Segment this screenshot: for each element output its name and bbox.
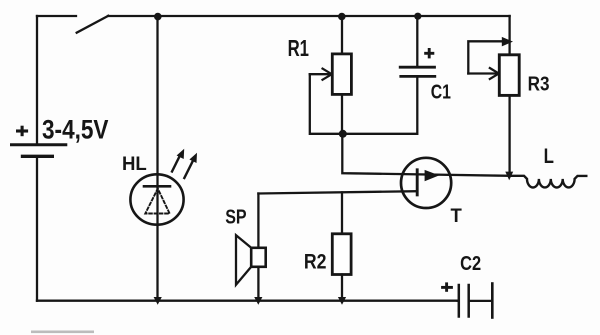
LED HL circle	[130, 174, 183, 224]
switch S1 blade	[77, 16, 109, 33]
scan smudge bottom left	[31, 331, 94, 334]
potentiometer R1 body	[332, 54, 351, 95]
transistor T circle	[401, 158, 451, 208]
inductor L coil	[510, 176, 587, 188]
node HL-bottom junction arrow	[154, 297, 162, 305]
wire HL branch vertical	[156, 16, 158, 300]
node top-C1 junction dot	[414, 13, 421, 20]
wire node B to transistor collector line	[342, 134, 509, 176]
wire SP bottom lead	[257, 267, 259, 300]
LED HL light arrow 1	[172, 149, 184, 172]
wire SP top lead	[257, 194, 259, 248]
speaker SP frame	[251, 248, 266, 267]
svg-text:R2: R2	[304, 251, 327, 274]
svg-text:C1: C1	[431, 80, 451, 103]
svg-text:R3: R3	[528, 72, 550, 95]
node top-HL junction dot	[154, 13, 162, 21]
node R3 wiper junction arrow	[502, 37, 513, 47]
wire top rail left segment	[37, 15, 76, 17]
wire R2 top lead	[341, 192, 343, 233]
node R2-bottom junction arrow	[338, 297, 346, 305]
svg-text:R1: R1	[288, 35, 310, 61]
node top-R1 junction dot	[338, 13, 346, 21]
capacitor C2 plate 2	[467, 285, 470, 317]
potentiometer R3 body	[499, 55, 519, 96]
potentiometer R1 wiper arrow	[310, 69, 332, 80]
capacitor C1 + label	[424, 48, 434, 58]
wire C2 left lead	[456, 300, 459, 302]
node R3-collector junction arrow	[505, 172, 513, 181]
wire left vertical (battery +)	[36, 16, 38, 144]
svg-text:L: L	[544, 144, 554, 168]
LED HL light arrow 2	[184, 153, 197, 178]
wire C2 right lead	[469, 300, 492, 302]
svg-text:T: T	[451, 206, 463, 227]
battery + label	[16, 126, 28, 137]
capacitor C2 plate 1	[458, 285, 461, 317]
svg-text:HL: HL	[122, 153, 147, 175]
wire base from speaker	[258, 191, 417, 193]
wire R2 bottom lead	[341, 275, 343, 301]
battery GB1 short plate	[21, 155, 54, 158]
wire R1 top lead	[341, 16, 343, 54]
wire R3 wiper loop	[468, 41, 504, 73]
node SP-bottom junction arrow	[254, 297, 262, 305]
wire left vertical (battery -)	[36, 157, 38, 301]
capacitor C2 + label	[441, 282, 453, 291]
wire R1 wiper loop	[310, 74, 418, 134]
svg-text:3-4,5V: 3-4,5V	[42, 115, 109, 145]
transistor T emitter arrowhead	[425, 170, 440, 181]
wire top rail right segment	[108, 15, 510, 17]
capacitor C1 top plate	[400, 66, 434, 69]
wire R3 bottom lead	[508, 95, 510, 176]
capacitor C2 plate 3	[491, 284, 494, 318]
resistor R2 body	[332, 234, 351, 275]
LED HL cathode bar	[144, 185, 170, 188]
potentiometer R3 wiper arrow	[468, 68, 499, 79]
capacitor C1 bottom plate	[401, 75, 435, 78]
LED HL triangle	[145, 189, 169, 214]
wire R1 bottom lead	[341, 94, 343, 133]
svg-text:C2: C2	[460, 252, 481, 275]
wire C1 top lead	[416, 16, 418, 66]
svg-text:SP: SP	[225, 206, 247, 229]
node R1-C1 junction dot	[339, 130, 347, 138]
wire R3 top lead	[508, 16, 510, 55]
battery GB1 long plate	[10, 143, 67, 146]
wire bottom rail	[37, 300, 458, 302]
transistor T base bar	[416, 170, 419, 195]
speaker SP cone	[236, 235, 251, 285]
